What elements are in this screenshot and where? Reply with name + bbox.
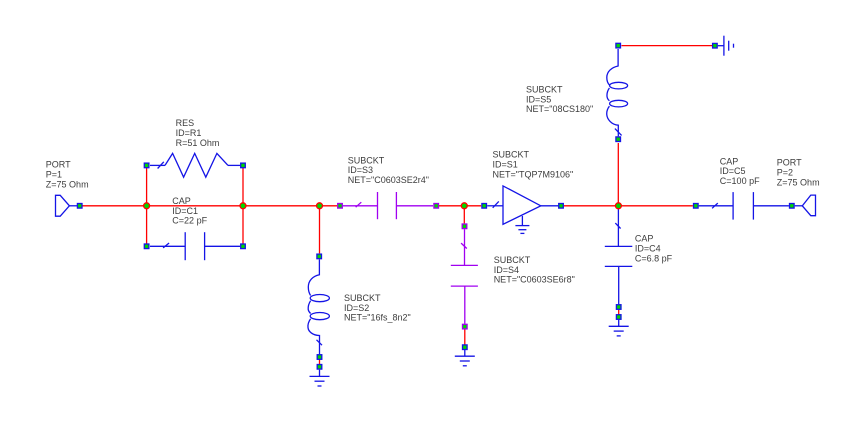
port P1 terminal (77, 204, 82, 209)
subckt S5 terminal 2 (616, 137, 621, 142)
svg-text:SUBCKT: SUBCKT (526, 85, 563, 95)
node 1 (144, 203, 150, 209)
svg-text:C=6.8 pF: C=6.8 pF (635, 253, 673, 263)
port P1 (56, 195, 78, 216)
wire R1C1 left column (146, 166, 148, 247)
capacitor C5 terminal 1 (694, 204, 699, 209)
ground terminal below S2 (317, 365, 322, 370)
wire R1C1 right column (242, 166, 244, 247)
resistor R1 terminal 1 (144, 163, 149, 168)
subckt S3 label (348, 155, 429, 185)
svg-text:SUBCKT: SUBCKT (493, 150, 530, 160)
wire main horizontal left (82, 205, 337, 207)
wire node5 to S5 (617, 143, 619, 206)
capacitor C4 label (635, 234, 673, 264)
svg-text:R=51 Ohm: R=51 Ohm (176, 138, 220, 148)
node 3 (317, 203, 323, 209)
svg-text:CAP: CAP (172, 196, 191, 206)
svg-text:CAP: CAP (635, 234, 654, 244)
node 2 (240, 203, 246, 209)
node 5 (615, 203, 621, 209)
wire C4 to ground terminal (618, 310, 620, 315)
subckt S3 series capacitor (343, 192, 433, 219)
svg-text:ID=C1: ID=C1 (172, 206, 198, 216)
svg-text:PORT: PORT (46, 160, 71, 170)
subckt S4 terminal 2 (463, 324, 468, 329)
svg-text:PORT: PORT (777, 158, 802, 168)
svg-text:C=22 pF: C=22 pF (172, 216, 207, 226)
wire amp out to C5 (564, 205, 693, 207)
subckt S2 label (344, 293, 411, 323)
svg-text:ID=S2: ID=S2 (344, 303, 369, 313)
subckt S1 terminal 2 (559, 204, 564, 209)
wire S5 to top ground (622, 45, 713, 47)
capacitor C1 (150, 232, 240, 260)
svg-text:Z=75 Ohm: Z=75 Ohm (777, 177, 820, 187)
subckt S1 amplifier (487, 186, 558, 224)
svg-text:ID=R1: ID=R1 (176, 128, 202, 138)
svg-text:NET="08CS180": NET="08CS180" (526, 104, 593, 114)
ground terminal below S4 (463, 345, 468, 350)
svg-text:ID=C5: ID=C5 (720, 166, 746, 176)
capacitor C1 terminal 2 (241, 244, 246, 249)
port P2 terminal (790, 204, 795, 209)
svg-text:P=1: P=1 (46, 170, 62, 180)
subckt S1 ground (515, 216, 529, 234)
subckt S1 terminal 1 (482, 204, 487, 209)
subckt S1 label (493, 150, 574, 180)
wire node3 to S2 (319, 206, 321, 254)
wire S2 to ground terminal (319, 360, 321, 365)
svg-text:ID=S5: ID=S5 (526, 94, 551, 104)
svg-text:NET="16fs_8n2": NET="16fs_8n2" (344, 313, 411, 323)
subckt S2 shunt inductor (308, 260, 329, 355)
ground terminal below C4 (616, 315, 621, 320)
wire S4 to ground terminal (464, 330, 466, 345)
resistor R1 (150, 153, 240, 177)
capacitor C5 (699, 192, 789, 220)
top ground terminal (713, 43, 718, 48)
capacitor C4 (605, 208, 633, 304)
port P2 label (777, 158, 820, 188)
subckt S2 terminal 1 (317, 254, 322, 259)
svg-text:ID=S3: ID=S3 (348, 165, 373, 175)
top ground (rotated) (718, 36, 734, 56)
port P2 (795, 195, 816, 216)
svg-text:C=100 pF: C=100 pF (720, 176, 760, 186)
capacitor C1 label (172, 196, 207, 226)
svg-text:ID=S4: ID=S4 (494, 265, 519, 275)
subckt S4 terminal 1 (462, 224, 467, 229)
capacitor C1 terminal 1 (144, 244, 149, 249)
subckt S4 label (494, 255, 575, 285)
svg-text:ID=C4: ID=C4 (635, 244, 661, 254)
svg-text:CAP: CAP (720, 156, 739, 166)
subckt S5 terminal 1 (616, 43, 621, 48)
svg-text:SUBCKT: SUBCKT (344, 293, 381, 303)
subckt S4 shunt capacitor (451, 229, 478, 324)
capacitor C4 terminal 2 (616, 305, 621, 310)
resistor R1 terminal 2 (241, 163, 246, 168)
svg-text:P=2: P=2 (777, 168, 793, 178)
svg-text:SUBCKT: SUBCKT (348, 155, 385, 165)
subckt S2 terminal 2 (317, 355, 322, 360)
subckt S5 label (526, 85, 593, 115)
capacitor C5 label (720, 156, 760, 186)
resistor R1 label (176, 118, 220, 148)
wire node4 to S4 (463, 206, 465, 224)
wire node4 to amp (439, 205, 481, 207)
svg-text:NET="C0603SE6r8": NET="C0603SE6r8" (494, 275, 575, 285)
svg-text:RES: RES (176, 118, 195, 128)
svg-text:NET="TQP7M9106": NET="TQP7M9106" (493, 169, 574, 179)
subckt S5 shunt inductor (607, 49, 628, 136)
node 4 (461, 203, 467, 209)
port P1 label (46, 160, 89, 190)
svg-text:NET="C0603SE2r4": NET="C0603SE2r4" (348, 175, 429, 185)
ground below C4 (609, 320, 629, 336)
svg-text:ID=S1: ID=S1 (493, 160, 518, 170)
svg-text:SUBCKT: SUBCKT (494, 255, 531, 265)
ground below S4 (455, 350, 475, 366)
svg-text:Z=75 Ohm: Z=75 Ohm (46, 179, 89, 189)
ground below S2 (310, 370, 330, 386)
subckt S3 terminal 2 (434, 204, 439, 209)
subckt S3 terminal 1 (338, 204, 343, 209)
